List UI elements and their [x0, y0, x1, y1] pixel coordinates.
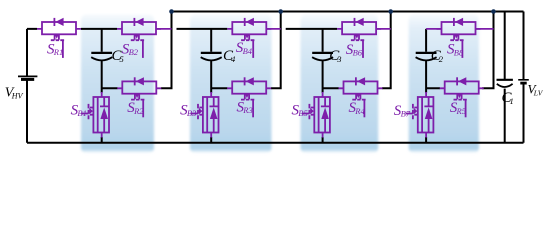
svg-text:B8: B8: [454, 47, 464, 57]
svg-text:B6: B6: [353, 48, 363, 58]
svg-text:R3: R3: [242, 105, 252, 115]
svg-text:LV: LV: [533, 88, 544, 97]
svg-text:R1: R1: [53, 47, 63, 57]
svg-text:R5: R5: [456, 106, 466, 116]
svg-text:2: 2: [439, 54, 444, 64]
svg-text:R2: R2: [133, 106, 144, 116]
svg-text:B2: B2: [129, 47, 139, 57]
svg-text:B5: B5: [298, 108, 307, 118]
svg-text:1: 1: [510, 96, 514, 106]
svg-text:B3: B3: [187, 108, 196, 118]
svg-text:B7: B7: [401, 109, 411, 119]
svg-text:B4: B4: [243, 46, 253, 56]
svg-text:R4: R4: [354, 106, 365, 116]
svg-text:3: 3: [336, 54, 341, 64]
svg-text:B1: B1: [77, 108, 86, 118]
svg-text:HV: HV: [11, 92, 24, 101]
